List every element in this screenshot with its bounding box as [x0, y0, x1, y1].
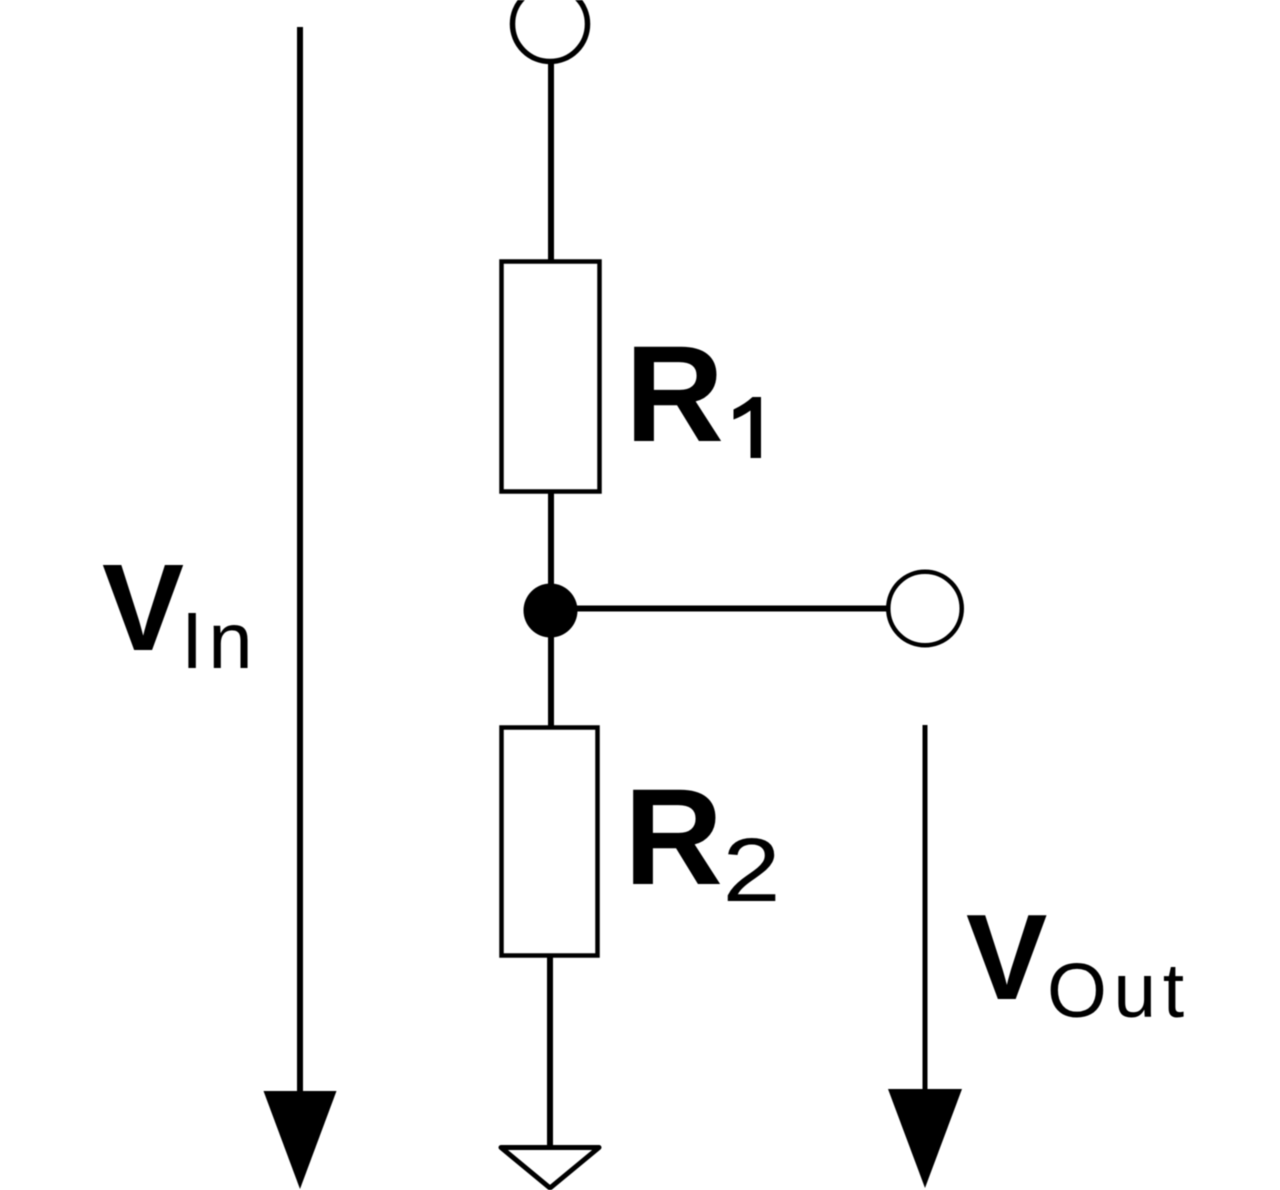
wire: R2 to ground: [547, 955, 553, 1147]
resistor R2 (body): [502, 728, 598, 956]
svg-text:R: R: [625, 318, 724, 471]
V_Out arrow line: [923, 725, 928, 1091]
svg-text:In: In: [181, 596, 258, 685]
svg-text:2: 2: [723, 820, 781, 921]
svg-text:V: V: [966, 889, 1047, 1025]
wire: input terminal to R1: [548, 61, 554, 262]
V_Out arrowhead: [888, 1089, 962, 1188]
V_In arrowhead: [264, 1091, 337, 1189]
ground symbol (open triangle): [501, 1148, 599, 1189]
wire: R1 to node: [548, 491, 554, 729]
svg-text:R: R: [624, 761, 723, 914]
terminal circle T1 (input, top): [513, 0, 588, 62]
V_In arrow line: [297, 27, 303, 1093]
terminal circle T2 (output, right): [888, 572, 962, 646]
node junction dot: [524, 584, 578, 638]
wire: node to output terminal: [551, 606, 888, 612]
resistor R1 (body): [502, 262, 600, 492]
svg-text:Out: Out: [1047, 948, 1191, 1034]
svg-text:V: V: [102, 540, 184, 677]
